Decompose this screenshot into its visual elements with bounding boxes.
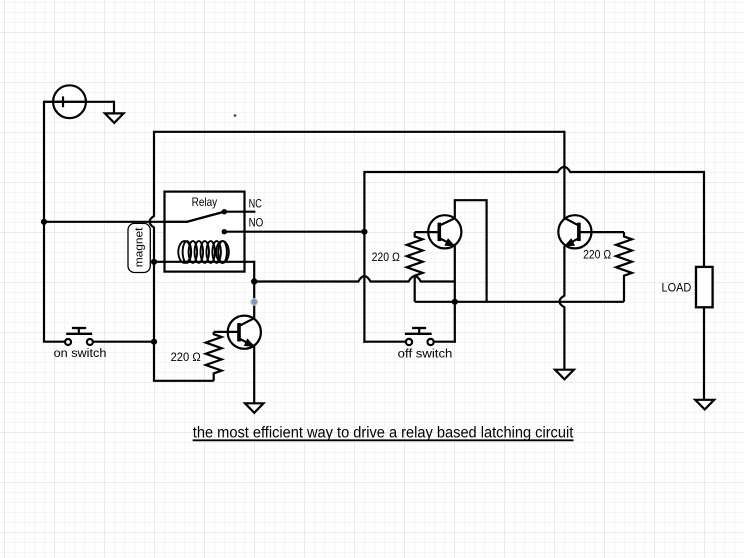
stray dot (234, 114, 237, 117)
ground (LOAD) triangle (695, 400, 714, 410)
wire collector cross rail (y=281) (254, 276, 455, 281)
node on-switch junction (151, 339, 157, 345)
magnet box (128, 223, 150, 272)
wire to on switch (43, 341, 65, 343)
transistor Q2 body (428, 215, 461, 248)
transistor Q3 (NPN mirrored) (565, 218, 579, 246)
wire Q1 emitter to ground (253, 346, 255, 403)
wire NC stub (224, 211, 255, 213)
voltage source V1 body (53, 85, 86, 118)
off switch (push button) (363, 328, 456, 342)
on switch (push button) (66, 328, 92, 334)
ground (at source) triangle (105, 113, 124, 123)
wire Q3 emitter to ground with hop (560, 246, 565, 370)
LOAD box (696, 267, 713, 307)
node A (source to relay common junction) (41, 219, 47, 225)
relay NC contact dot (222, 209, 227, 214)
wire Q3 base to R3 (580, 231, 624, 233)
off switch contacts (406, 339, 412, 345)
node Q1 collector / cross junction (251, 278, 257, 284)
wire rail to R1 bottom (153, 380, 214, 382)
wire on-switch to rail (93, 341, 155, 343)
resistor R2 220Ω (407, 232, 423, 302)
transistor Q1 (NPN) (239, 318, 254, 346)
wire left rail (43, 101, 45, 342)
transistor Q3 body (558, 215, 591, 248)
wire top bus 1 (150, 132, 565, 381)
ground (Q1 emitter) triangle (245, 403, 264, 413)
voltage source V1 (44, 96, 114, 107)
wire coil bottom rail (154, 261, 255, 263)
node emitter junction (452, 299, 458, 305)
node NO junction (361, 229, 367, 235)
wire base rail (y=302) (415, 301, 624, 303)
blue connection point (251, 299, 258, 306)
ground (at source) (113, 101, 115, 114)
wire Q2 emitter down to off-switch rail (454, 246, 456, 343)
wire relay out down to Q1 collector (253, 261, 255, 319)
wire R1 to Q1 base (214, 331, 238, 333)
wire R2 to Q2 base (415, 231, 438, 233)
wire LOAD to ground (703, 306, 705, 400)
relay box (165, 192, 245, 272)
wire main right rail (collector Q3) (563, 131, 565, 219)
relay coil L1 (178, 241, 229, 263)
relay NO contact dot (222, 229, 227, 234)
wire relay common (44, 212, 224, 222)
on switch contacts (65, 339, 71, 345)
wire top bus 2 (364, 167, 704, 343)
transistor Q2 (NPN) (439, 218, 455, 246)
ground (main rail) triangle (555, 370, 574, 380)
node coil-left junction (151, 259, 157, 265)
wire NO to Q2 rail (224, 231, 364, 233)
transistor Q1 body (228, 316, 261, 349)
resistor R1 220Ω (206, 332, 222, 381)
caption underline (193, 439, 574, 441)
wire Q2 collector loop (455, 200, 487, 302)
relay switch arm (166, 212, 225, 222)
resistor R3 220Ω (616, 232, 632, 302)
